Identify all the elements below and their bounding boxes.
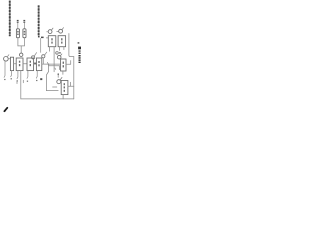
parallel feed wire <box>46 64 58 91</box>
box B1 <box>16 58 23 71</box>
resistor block R1 <box>10 57 13 70</box>
wire Y2 down <box>23 38 25 46</box>
crystal Y2 <box>23 29 26 38</box>
tube V2 left lead tick <box>57 30 59 32</box>
dial circle C1 <box>31 56 34 59</box>
tube V2 tick <box>62 28 64 30</box>
tube V1 circle <box>48 30 52 34</box>
dial C2 stem <box>42 58 44 64</box>
right caption text (rotated) <box>38 5 40 37</box>
FIG label (rotated) <box>78 47 81 63</box>
signature mark bottom left <box>4 108 7 111</box>
vertical wire from V1 leg <box>53 52 55 72</box>
left caption text (rotated) <box>9 1 11 37</box>
V4 right wire <box>68 85 74 87</box>
lead line label to crystal Y1 <box>17 23 19 29</box>
tube V1 left lead <box>46 37 48 39</box>
wire meter to resistor <box>8 58 10 60</box>
ground lead under box B3 <box>35 71 38 79</box>
label near V3 <box>59 52 61 53</box>
wire B1 to B2 <box>23 63 27 65</box>
dial C1 pointer <box>34 53 36 56</box>
tick on main wire <box>47 62 49 65</box>
stub with dot <box>57 74 59 78</box>
label 24 pointer blob <box>41 37 44 39</box>
tube V2 legs <box>58 47 60 51</box>
V4 bottom stem to bus <box>62 95 64 99</box>
tick on feed wire <box>54 68 57 70</box>
bus drop from B1 <box>20 71 22 99</box>
label 14 above crystal Y2 <box>23 20 25 23</box>
V3 bottom stem <box>62 71 64 74</box>
tube V1 tick <box>51 28 53 30</box>
right branch wire down <box>69 34 74 57</box>
meter M1 tick <box>7 55 9 57</box>
dial circle C2 <box>42 55 45 58</box>
oscillator V4 circle <box>57 80 61 84</box>
mixer V3 tick <box>60 54 62 56</box>
tube V1 legs <box>49 47 51 52</box>
wire junction to mixer input <box>20 46 22 53</box>
meter M1 circle <box>4 57 9 62</box>
pointer line down to dial C2 <box>40 38 42 52</box>
label 12 above crystal Y1 <box>17 20 19 23</box>
link label between B2 B3 <box>34 63 36 65</box>
tube V2 body <box>58 36 66 47</box>
oscillator V4 body <box>61 81 68 95</box>
ground lead under meter <box>3 61 6 77</box>
junction node circle <box>20 53 23 56</box>
dial C2 pointer <box>45 52 47 55</box>
wire Y1 down <box>17 38 19 46</box>
ground lead under box B2 <box>26 71 29 79</box>
tube V1 body <box>48 36 56 47</box>
bottom bus <box>21 98 74 100</box>
wire joining crystals <box>18 45 25 47</box>
mixer V3 body <box>61 59 66 71</box>
small node circle under tubes <box>56 52 59 55</box>
box B2 <box>27 58 34 71</box>
crystal Y1 <box>16 29 19 38</box>
box B3 <box>36 58 41 71</box>
mixer V3 circle <box>57 55 61 59</box>
ground lead under box B1 left <box>16 71 19 79</box>
right bus vertical <box>73 57 75 99</box>
small mark top right <box>78 42 80 43</box>
tube V2 circle <box>59 29 63 33</box>
wire B2 to B3 <box>34 63 37 65</box>
oscillator V4 tick <box>60 77 62 80</box>
stub marks above bus corner <box>16 81 18 84</box>
lead line label to crystal Y2 <box>23 23 25 29</box>
wire resistor to box B1 <box>14 63 17 65</box>
V4 left wire <box>53 86 57 88</box>
ground lead under resistor <box>10 71 13 77</box>
label 30 blob <box>40 78 42 80</box>
V3 right wire <box>66 63 71 65</box>
main wire B3 to mixer V3 <box>42 63 61 65</box>
tube V1 left lead tick <box>47 31 49 33</box>
